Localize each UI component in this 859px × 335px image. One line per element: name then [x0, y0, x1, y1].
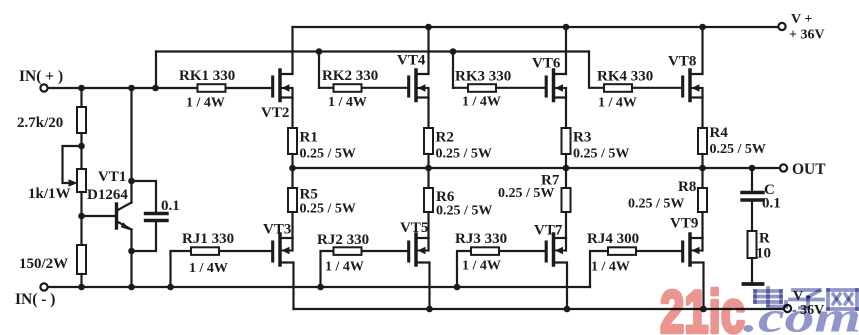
wire RK3 lead — [453, 87, 546, 89]
node OUT rail stage 4 — [699, 165, 706, 172]
capacitor C top plate — [742, 191, 763, 194]
resistor R8 body — [698, 188, 707, 212]
mosfet VT8 source lead — [690, 98, 703, 129]
svg-text:VT6: VT6 — [532, 56, 561, 72]
resistor RJ4 300 body — [608, 247, 636, 255]
wire R1 to OUT rail — [291, 154, 293, 168]
mosfet VT8 channel bar — [688, 70, 692, 101]
node OUT rail stage 1 — [289, 165, 296, 172]
wire V- bottom rail — [294, 308, 785, 310]
VT1 collector diagonal — [117, 203, 132, 211]
wire OUT rail — [293, 167, 780, 169]
node RJ2 / IN- bus — [317, 284, 324, 291]
mosfet VT6 drain lead — [554, 27, 567, 74]
node OUT rail stage 3 — [563, 165, 570, 172]
mosfet VT4 body-source tie — [427, 88, 429, 98]
node VT1 emitter / IN- bus — [128, 284, 135, 291]
wire VT1 base — [82, 215, 116, 217]
node chain / IN- bus — [78, 284, 85, 291]
wire cap top link — [132, 181, 157, 213]
resistor RK4 330 body — [604, 84, 632, 92]
mosfet VT5 channel bar — [414, 234, 418, 265]
node gate rail feed — [152, 85, 159, 92]
mosfet VT8 body-source tie — [701, 88, 703, 98]
node VT1 collector / input line — [128, 85, 135, 92]
svg-text:1 / 4W: 1 / 4W — [591, 260, 630, 275]
svg-text:D1264: D1264 — [87, 187, 128, 203]
svg-text:VT5: VT5 — [400, 220, 428, 236]
svg-text:0.25 / 5W: 0.25 / 5W — [436, 147, 492, 162]
node OUT rail stage 2 — [425, 165, 432, 172]
svg-text:0.25 / 5W: 0.25 / 5W — [498, 186, 554, 201]
node V+ rail / VT8 drain — [699, 24, 706, 31]
resistor R7 body — [562, 188, 571, 212]
terminal V- — [784, 305, 791, 312]
mosfet VT2 gate bar — [271, 77, 274, 96]
svg-text:1 / 4W: 1 / 4W — [598, 96, 637, 111]
mosfet VT3 body-source tie — [291, 238, 293, 251]
mosfet VT5 source lead — [416, 237, 429, 239]
svg-text:0.25 / 5W: 0.25 / 5W — [710, 142, 766, 157]
mosfet VT7 body arrow — [555, 247, 563, 255]
resistor RK2 330 body — [334, 84, 362, 92]
wire OUT rail to R7 — [565, 168, 567, 188]
mosfet VT9 body arrow — [692, 247, 700, 255]
svg-text:1 / 4W: 1 / 4W — [328, 95, 367, 110]
mosfet VT5 gate bar — [407, 242, 410, 261]
svg-text:VT7: VT7 — [534, 223, 563, 239]
svg-text:21ic: 21ic — [660, 279, 745, 335]
mosfet VT9 drain lead — [690, 263, 704, 310]
svg-text:10: 10 — [756, 246, 771, 262]
mosfet VT8 gate bar — [681, 77, 684, 96]
mosfet VT2 body line — [280, 87, 293, 89]
mosfet VT9 channel bar — [688, 234, 692, 265]
resistor R2 body — [424, 128, 433, 154]
wire RJ4 riser — [590, 251, 683, 287]
mosfet VT6 channel bar — [552, 70, 556, 101]
wire RJ2 riser — [321, 251, 409, 287]
wire zobel bottom — [751, 258, 753, 283]
svg-text:RK2 330: RK2 330 — [322, 68, 378, 84]
svg-text:1 / 4W: 1 / 4W — [325, 260, 364, 275]
node RJ1 / IN- bus — [167, 284, 174, 291]
mosfet VT4 gate bar — [407, 77, 410, 96]
wire R5 to VT3 — [291, 212, 293, 238]
mosfet VT4 body arrow — [418, 84, 426, 92]
resistor RJ3 330 body — [471, 247, 499, 255]
mosfet VT2 body-source tie — [291, 88, 293, 98]
terminal IN(-) — [40, 283, 47, 290]
node VT1 emitter / cap return — [128, 248, 135, 255]
mosfet VT2 source lead — [280, 98, 293, 129]
mosfet VT7 body-source tie — [565, 238, 567, 251]
svg-text:RJ1 330: RJ1 330 — [182, 231, 234, 247]
resistor RJ2 330 body — [334, 247, 362, 255]
mosfet VT9 gate bar — [681, 242, 684, 261]
svg-text:VT8: VT8 — [668, 54, 696, 70]
wire RK3 riser — [452, 52, 454, 88]
svg-text:0.25 / 5W: 0.25 / 5W — [436, 204, 492, 219]
mosfet VT6 gate bar — [545, 77, 548, 96]
wire OUT rail to R8 — [701, 168, 703, 188]
svg-text:R3: R3 — [573, 130, 591, 146]
capacitor 0.1 bottom plate — [146, 219, 168, 222]
wire RJ1 riser — [171, 251, 273, 287]
resistor R4 body — [698, 128, 707, 154]
svg-text:R2: R2 — [436, 130, 454, 146]
mosfet VT4 source lead — [416, 98, 429, 129]
svg-text:IN( - ): IN( - ) — [15, 291, 55, 308]
capacitor C bottom plate — [742, 198, 763, 201]
wire RK4 riser — [589, 52, 683, 88]
resistor R5 body — [288, 188, 297, 212]
terminal OUT — [780, 164, 787, 171]
resistor R1 body — [288, 128, 297, 154]
mosfet VT7 body line — [554, 250, 567, 252]
mosfet VT8 drain lead — [690, 27, 703, 74]
svg-text:RJ3 330: RJ3 330 — [455, 231, 507, 247]
mosfet VT3 body line — [280, 250, 293, 252]
mosfet VT6 body line — [554, 87, 567, 89]
wire OUT rail to R5 — [291, 168, 293, 188]
wire R2 to OUT rail — [427, 154, 429, 168]
wire chain mid2 — [80, 192, 82, 245]
mosfet VT7 source lead — [554, 237, 567, 239]
wire V+ top rail — [293, 26, 779, 28]
resistor R 10 body — [748, 231, 757, 258]
svg-text:VT9: VT9 — [670, 216, 698, 232]
resistor RJ1 330 body — [191, 247, 219, 255]
mosfet VT7 channel bar — [552, 234, 556, 265]
svg-text:R: R — [759, 231, 770, 247]
svg-text:RK4 330: RK4 330 — [597, 69, 653, 85]
svg-text:0.25 / 5W: 0.25 / 5W — [300, 147, 356, 162]
capacitor 0.1 top plate — [146, 212, 168, 215]
svg-text:V +: V + — [791, 12, 812, 27]
wire input chain top — [80, 88, 82, 107]
wire OUT rail to R6 — [427, 168, 429, 188]
potentiometer 1k/1W body — [77, 169, 86, 192]
mosfet VT8 body arrow — [692, 84, 700, 92]
wire RK2 riser — [318, 52, 320, 88]
mosfet VT4 body line — [416, 87, 429, 89]
svg-text:1 / 4W: 1 / 4W — [189, 261, 228, 276]
mosfet VT5 body-source tie — [427, 238, 429, 251]
wire RK2 lead — [319, 87, 409, 89]
node V+ rail / VT4 drain — [425, 24, 432, 31]
mosfet VT3 body arrow — [282, 247, 290, 255]
svg-text:RJ4 300: RJ4 300 — [587, 231, 639, 247]
svg-text:150/2W: 150/2W — [19, 256, 68, 272]
mosfet VT5 body line — [416, 250, 429, 252]
node V- rail / VT7 drain — [564, 306, 571, 313]
svg-text:VT1: VT1 — [98, 169, 126, 185]
terminal V+ — [778, 23, 785, 30]
watermark char 电 — [766, 288, 770, 305]
mosfet VT6 body arrow — [555, 84, 563, 92]
svg-text:0.25 / 5W: 0.25 / 5W — [573, 147, 629, 162]
resistor R3 body — [562, 128, 571, 154]
wire RJ3 riser — [457, 251, 546, 287]
resistor R6 body — [424, 188, 433, 212]
node wiper tie — [78, 143, 85, 150]
mosfet VT3 gate bar — [271, 242, 274, 261]
node V- rail / VT9 drain — [700, 306, 707, 313]
svg-text:RJ2 330: RJ2 330 — [317, 232, 369, 248]
wire zobel top — [751, 168, 753, 192]
wire IN(-) bus — [48, 286, 591, 288]
node gate rail / RK3 riser — [450, 48, 457, 55]
node VT1 base tap — [78, 213, 85, 220]
wire gate drive rail — [156, 50, 589, 52]
svg-text:R8: R8 — [678, 179, 696, 195]
wire chain mid1 — [80, 133, 82, 169]
svg-text:1 / 4W: 1 / 4W — [462, 259, 501, 274]
svg-text:OUT: OUT — [792, 161, 826, 178]
svg-text:0.1: 0.1 — [762, 196, 781, 212]
svg-text:RK1 330: RK1 330 — [179, 68, 235, 84]
mosfet VT8 body line — [690, 87, 703, 89]
mosfet VT2 channel bar — [278, 70, 282, 101]
wire R7 to VT7 — [565, 212, 567, 238]
node input line / chain — [78, 85, 85, 92]
svg-text:0.25 / 5W: 0.25 / 5W — [628, 197, 684, 212]
mosfet VT6 body-source tie — [565, 88, 567, 98]
mosfet VT2 drain lead — [280, 27, 293, 74]
wire gate rail riser — [155, 52, 157, 89]
mosfet VT5 body arrow — [418, 247, 426, 255]
svg-text:1 / 4W: 1 / 4W — [462, 95, 501, 110]
wire R6 to VT5 — [427, 212, 429, 238]
VT1 emitter arrow — [121, 222, 132, 230]
mosfet VT3 drain lead — [280, 263, 294, 310]
pot wiper arrow — [69, 179, 78, 187]
mosfet VT2 body arrow — [282, 84, 290, 92]
svg-text:0.25 / 5W: 0.25 / 5W — [300, 202, 356, 217]
svg-text:R1: R1 — [300, 130, 318, 146]
node V+ rail / VT6 drain — [563, 24, 570, 31]
wire R3 to OUT rail — [565, 154, 567, 168]
wire VT1 collector up — [130, 88, 132, 203]
mosfet VT9 body-source tie — [701, 238, 703, 251]
svg-text:0.1: 0.1 — [161, 198, 180, 214]
wire VT1 emitter down — [130, 230, 132, 288]
mosfet VT4 channel bar — [414, 70, 418, 101]
svg-text:.com: .com — [743, 295, 859, 335]
svg-text:+ 36V: + 36V — [789, 28, 825, 43]
watermark char 子 — [793, 288, 820, 292]
svg-text:VT3: VT3 — [263, 222, 291, 238]
node RJ3 / IN- bus — [454, 284, 461, 291]
svg-text:VT4: VT4 — [397, 53, 426, 69]
node gate rail / RK2 riser — [316, 48, 323, 55]
mosfet VT3 channel bar — [278, 234, 282, 265]
watermark char 网 — [828, 288, 857, 292]
node V- rail / VT5 drain — [426, 306, 433, 313]
mosfet VT9 body line — [690, 250, 703, 252]
wire IN(+) input line — [48, 87, 273, 89]
mosfet VT9 source lead — [690, 237, 703, 239]
ground — [744, 282, 763, 286]
svg-text:R5: R5 — [300, 187, 318, 203]
resistor 150/2W — [77, 245, 86, 274]
transistor VT1 base bar — [115, 204, 118, 228]
mosfet VT7 gate bar — [545, 242, 548, 261]
wire cap bottom link — [132, 221, 157, 251]
mosfet VT4 drain lead — [416, 27, 429, 74]
wire R4 to OUT rail — [701, 154, 703, 168]
svg-text:VT2: VT2 — [261, 105, 289, 121]
svg-text:RK3 330: RK3 330 — [455, 69, 511, 85]
svg-text:IN( + ): IN( + ) — [19, 68, 63, 85]
mosfet VT5 drain lead — [416, 263, 430, 310]
resistor RK3 330 body — [468, 84, 496, 92]
svg-text:1k/1W: 1k/1W — [28, 186, 71, 202]
wire R8 to VT9 — [701, 212, 703, 238]
node OUT rail / zobel tap — [749, 165, 756, 172]
mosfet VT6 source lead — [554, 98, 567, 129]
terminal IN(+) — [40, 84, 47, 91]
resistor 2.7k/20 — [77, 107, 86, 133]
pot wiper loop — [63, 146, 82, 183]
mosfet VT3 source lead — [280, 237, 293, 239]
resistor RK1 330 body — [198, 84, 226, 92]
svg-text:2.7k/20: 2.7k/20 — [17, 115, 63, 131]
node VT1 collector / cap tap — [128, 178, 135, 185]
wire zobel mid — [751, 200, 753, 231]
svg-text:1 / 4W: 1 / 4W — [186, 96, 225, 111]
svg-text:R4: R4 — [710, 125, 729, 141]
VT1 emitter diagonal — [117, 222, 132, 230]
mosfet VT7 drain lead — [554, 263, 568, 310]
wire chain bottom — [80, 274, 82, 287]
